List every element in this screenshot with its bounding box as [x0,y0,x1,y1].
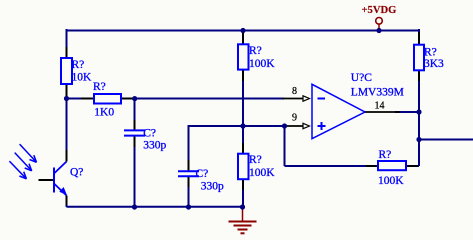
svg-text:R?: R? [72,59,85,71]
junction C2 bottom [186,204,191,209]
svg-text:C?: C? [196,168,209,180]
wire pin 14 to node [395,111,419,113]
pin 14 [365,100,400,112]
svg-text:330p: 330p [201,181,224,193]
ground [229,207,257,233]
svg-text:100K: 100K [249,58,275,70]
svg-text:R?: R? [379,149,392,161]
wire output to right edge [419,139,473,141]
wire top bus [67,30,420,32]
resistor R? 100K feedback [366,149,418,187]
svg-text:+5VDG: +5VDG [362,5,397,16]
wire C1 bottom vertical [134,137,136,208]
op-amp U?C LMV339M [312,72,404,139]
capacitor C? 330p second [178,160,224,193]
pin 9 [285,113,310,129]
wire C2 top vertical [188,125,190,171]
wire feedback horizontal [285,165,367,167]
svg-text:R?: R? [249,45,262,57]
wire bottom bus [66,196,68,208]
junction output pin 14 [416,109,421,114]
resistor R? 3K3 [414,32,444,81]
svg-text:14: 14 [375,100,385,111]
svg-text:R?: R? [249,154,262,166]
junction C1 bottom [132,204,137,209]
wire left vertical to collector [66,99,68,162]
wire node A horizontal (1K0 to pin 8) [67,98,285,100]
wire C2 bottom vertical [188,177,190,208]
wire C1 top vertical [134,99,136,130]
wire feedback right [406,165,419,167]
wire pin 9 net horizontal [243,125,286,127]
svg-text:R?: R? [424,47,437,59]
junction ground [240,204,245,209]
light arrow 2 [15,153,32,171]
wire feedback vertical [284,126,286,166]
wire right vertical [418,29,420,166]
wire mid vertical (100K chain) [242,30,244,208]
svg-text:100K: 100K [378,175,404,187]
junction power [376,28,381,33]
capacitor C? 330p first [124,120,166,151]
svg-text:Q?: Q? [70,167,83,179]
junction node A right [132,96,137,101]
svg-text:8: 8 [292,86,297,97]
power port +5VDG [362,5,397,30]
wire C2 top horizontal [189,125,244,127]
svg-text:100K: 100K [249,167,275,179]
svg-text:9: 9 [292,113,297,124]
resistor R? 100K upper [238,31,275,81]
junction output branch [416,137,421,142]
resistor R? 100K middle [238,143,275,190]
light arrow 3 [9,161,26,179]
junction top 100K [240,28,245,33]
light arrow 1 [20,144,37,162]
svg-text:U?C: U?C [351,72,372,84]
wire left vertical upper [66,29,68,99]
svg-text:10K: 10K [72,72,93,84]
svg-text:330p: 330p [143,139,166,151]
resistor R? 1K0 [81,81,134,118]
svg-text:LMV339M: LMV339M [351,86,404,98]
wire bottom bus horizontal [67,206,244,208]
pin 8 [282,86,310,101]
svg-text:3K3: 3K3 [424,58,444,70]
junction pin 9 [282,123,287,128]
resistor R? 10K [61,47,92,96]
svg-text:R?: R? [93,81,106,93]
junction C2 top [240,123,245,128]
svg-text:1K0: 1K0 [94,106,114,118]
transistor Q? phototransistor [39,150,84,205]
junction node A left [64,96,69,101]
svg-text:C?: C? [143,128,156,140]
